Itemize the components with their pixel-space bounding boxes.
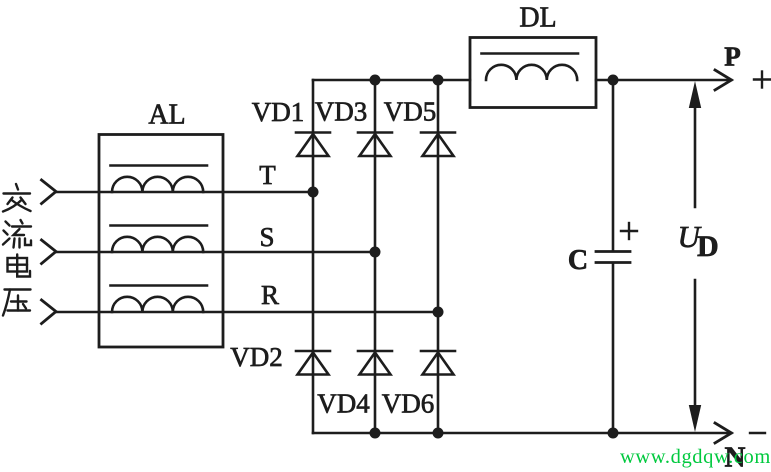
svg-text:P: P xyxy=(724,42,741,72)
node top rail VD5 xyxy=(433,75,444,86)
diode VD2 xyxy=(296,351,330,375)
inductor AL winding 2 coil xyxy=(112,237,203,252)
svg-text:VD4: VD4 xyxy=(317,389,370,419)
capacitor C branch lower wire xyxy=(612,263,615,433)
svg-text:C: C xyxy=(568,245,588,276)
inductor AL winding 2 core xyxy=(111,224,208,227)
svg-text:VD5: VD5 xyxy=(384,97,437,127)
capacitor plus sign xyxy=(621,223,637,239)
hanzi liu (流) xyxy=(3,220,31,248)
inductor DL box xyxy=(470,38,596,108)
inductor AL winding 3 coil xyxy=(112,297,203,312)
Ud dimension arrow upper segment xyxy=(694,95,697,207)
diode VD5 xyxy=(421,133,455,157)
svg-text:D: D xyxy=(697,230,719,263)
wire VD5 column xyxy=(437,80,440,433)
Ud arrowhead down xyxy=(689,405,701,432)
minus sign at N xyxy=(750,432,765,434)
output terminal arrow P xyxy=(715,70,732,90)
svg-text:www.dgdqw.com: www.dgdqw.com xyxy=(620,446,771,468)
hanzi dian (电) xyxy=(8,255,31,277)
node T junction xyxy=(308,187,319,198)
wire phase3 to R xyxy=(56,311,438,314)
Ud arrowhead up xyxy=(689,81,701,108)
svg-text:AL: AL xyxy=(148,100,185,131)
diode VD6 xyxy=(421,351,455,375)
hanzi jiao (交) xyxy=(3,184,31,212)
svg-text:VD2: VD2 xyxy=(230,342,283,372)
hanzi ya (压) xyxy=(3,290,31,316)
diode VD4 xyxy=(358,351,392,375)
wire VD3 column xyxy=(374,80,377,433)
inductor AL winding 1 core xyxy=(111,164,208,167)
inductor AL winding 1 coil xyxy=(112,177,203,192)
node R junction xyxy=(433,307,444,318)
node S junction xyxy=(370,247,381,258)
capacitor C plates xyxy=(596,252,630,263)
node top rail VD3 xyxy=(370,75,381,86)
node bottom rail VD4 xyxy=(370,428,381,439)
inductor DL coil xyxy=(486,65,577,80)
capacitor C branch upper wire xyxy=(612,80,615,251)
wire phase2 to S xyxy=(56,251,375,254)
svg-text:S: S xyxy=(259,222,274,252)
svg-text:VD1: VD1 xyxy=(252,97,305,127)
node top rail capacitor xyxy=(608,75,619,86)
wire top rail after DL xyxy=(596,79,731,82)
input terminal arrow phase 1 xyxy=(42,180,57,204)
inductor DL core xyxy=(482,52,579,55)
input terminal arrow phase 3 xyxy=(42,300,57,324)
reactor AL box xyxy=(99,135,223,348)
wire phase1 to T xyxy=(56,191,313,194)
svg-text:VD6: VD6 xyxy=(382,389,435,419)
svg-text:VD3: VD3 xyxy=(315,97,368,127)
wire VD1 column xyxy=(312,80,315,433)
diode VD1 xyxy=(296,133,330,157)
svg-text:R: R xyxy=(261,280,279,310)
output terminal arrow N xyxy=(715,423,732,443)
node bottom rail capacitor xyxy=(608,428,619,439)
diode VD3 xyxy=(358,133,392,157)
input terminal arrow phase 2 xyxy=(42,240,57,264)
svg-text:T: T xyxy=(259,160,276,190)
plus sign at P xyxy=(754,72,770,88)
Ud dimension arrow lower segment xyxy=(694,280,697,420)
node bottom rail VD6 xyxy=(433,428,444,439)
inductor AL winding 3 core xyxy=(111,284,208,287)
svg-text:DL: DL xyxy=(519,3,556,34)
wire top rail xyxy=(313,79,470,82)
wire bottom rail xyxy=(313,432,731,435)
